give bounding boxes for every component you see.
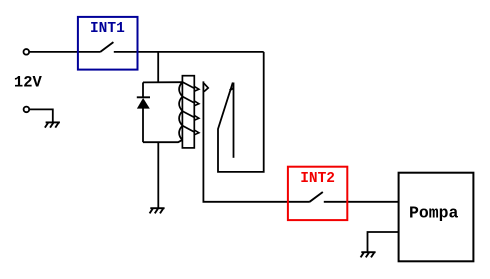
svg-text:INT1: INT1 [90, 21, 125, 37]
wire T1 to INT1 switch left contact [29, 51, 100, 53]
wire from INT2 switch to Pompa [324, 201, 399, 203]
diode D1 (flyback) [137, 82, 150, 142]
ground (Pompa) [361, 252, 376, 257]
svg-text:INT2: INT2 [300, 171, 335, 187]
relay common terminal hook [204, 83, 208, 91]
svg-text:Pompa: Pompa [409, 204, 459, 223]
wire: top link diode-coil [143, 81, 182, 83]
switch box INT2 [288, 167, 347, 220]
switch box INT1 [78, 17, 138, 70]
box Pompa [399, 173, 474, 262]
relay common terminal wire to INT2 [203, 81, 309, 201]
wire T2 to ground [29, 109, 52, 122]
wire from INT1 switch to bus top-right corner [114, 51, 264, 53]
relay contact frame: right drop from bus [218, 52, 264, 172]
relay contact fixed blade [233, 83, 235, 158]
relay coil winding end hooks [194, 86, 199, 134]
switch INT1 arm [100, 42, 113, 52]
terminal T1 (12V input) [24, 49, 30, 55]
ground (12V return) [45, 122, 60, 127]
terminal T2 (ground reference) [24, 107, 30, 113]
switch INT2 arm [310, 192, 323, 202]
node junction: bus to relay coil [157, 52, 159, 83]
svg-text:12V: 12V [14, 74, 43, 92]
relay coil winding left arcs [179, 82, 182, 140]
wire: bottom link diode-coil [143, 140, 182, 142]
relay contact apex hook [230, 88, 234, 90]
relay coil winding turns [182, 82, 194, 132]
wire: Pompa ground branch [368, 232, 399, 252]
wire: coil bottom to ground [157, 142, 159, 207]
ground (relay coil) [150, 208, 165, 213]
relay coil core rectangle [182, 76, 194, 148]
